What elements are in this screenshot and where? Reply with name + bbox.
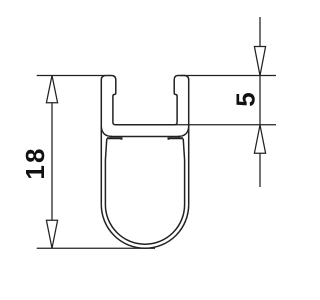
dimension line 18 bbox=[51, 76, 53, 249]
cavity corner fillet right bbox=[178, 126, 189, 137]
bulb inner contour bbox=[105, 139, 184, 245]
extension line bottom-right / channel floor (dim 5) bbox=[115, 124, 276, 126]
extension line bottom (dim 18) bbox=[37, 247, 155, 249]
arrowhead 18 bottom bbox=[46, 220, 57, 248]
profile outline: U-channel with retention notches bbox=[101, 76, 188, 205]
arrowhead 5 top bbox=[254, 47, 265, 76]
cavity ledge left bbox=[107, 138, 122, 140]
extension line top-right (dim 5) bbox=[180, 75, 276, 77]
bulb outer contour bbox=[101, 205, 188, 249]
extension line top-left (dim 18) bbox=[37, 75, 105, 77]
dimension line 5 bbox=[259, 17, 261, 187]
arrowhead 18 top bbox=[46, 76, 57, 103]
cavity ledge right bbox=[169, 138, 184, 140]
svg-text:18: 18 bbox=[20, 146, 50, 179]
bulb cavity ceiling bbox=[110, 136, 180, 138]
arrowhead 5 bottom bbox=[254, 125, 265, 153]
cavity corner fillet left bbox=[101, 126, 112, 137]
svg-text:5: 5 bbox=[231, 92, 261, 106]
